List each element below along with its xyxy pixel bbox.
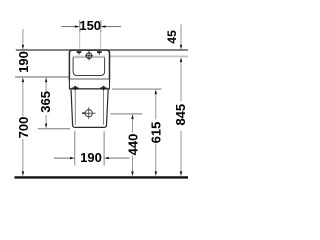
bolt marker right — [100, 86, 107, 90]
pedestal inner lines — [74, 90, 76, 125]
top reference line (black, fixture top level) — [16, 49, 188, 51]
extension line left y77 (bowl rim bottom) — [15, 76, 69, 78]
dimension 845 (gray line to floor, shares line with 45) — [180, 63, 182, 102]
dimension 365 (left inner) — [45, 77, 47, 82]
bolt marker left — [72, 86, 79, 90]
top fixing marker right — [97, 52, 102, 55]
top fixing marker left — [77, 52, 82, 55]
dimension 615 (right) — [155, 90, 157, 95]
dimension 440 (right inner) — [131, 114, 133, 119]
svg-text:845: 845 — [173, 104, 188, 126]
floor line — [15, 176, 189, 178]
drain target symbol — [82, 107, 96, 119]
dimension 190 (left top) — [22, 29, 24, 44]
bowl inner rim: sides and bottom — [73, 58, 105, 76]
step section below bowl — [69, 79, 109, 89]
svg-text:150: 150 — [79, 18, 101, 33]
pedestal outer — [71, 89, 108, 128]
svg-text:615: 615 — [148, 122, 163, 144]
svg-text:365: 365 — [38, 91, 53, 113]
extension line right y113.9 (440 top) — [110, 113, 142, 115]
technical dimension drawing of wall-hung urinal, front view — [0, 0, 200, 200]
svg-text:190: 190 — [80, 150, 102, 165]
wall/rim reference line (light gray) — [110, 55, 188, 57]
urinal bowl outer — [69, 50, 109, 79]
bowl inner rim: gray top edge — [73, 56, 106, 58]
extension line right y89.1 (615 top) — [112, 88, 162, 90]
dimension 150 (top) — [62, 26, 122, 28]
extension line left y128.8 (365 bottom) — [38, 128, 70, 130]
svg-text:190: 190 — [16, 51, 31, 73]
dimension 45 (right top) — [180, 25, 182, 45]
150 extension lines (gray, down to fixture top) — [79, 21, 81, 49]
svg-text:440: 440 — [126, 134, 141, 156]
inlet symbol top center — [85, 50, 93, 60]
dimension 190 (bottom) — [54, 157, 130, 159]
svg-text:700: 700 — [16, 117, 31, 139]
dimension 700 (left) — [22, 77, 24, 82]
svg-text:45: 45 — [165, 30, 179, 44]
